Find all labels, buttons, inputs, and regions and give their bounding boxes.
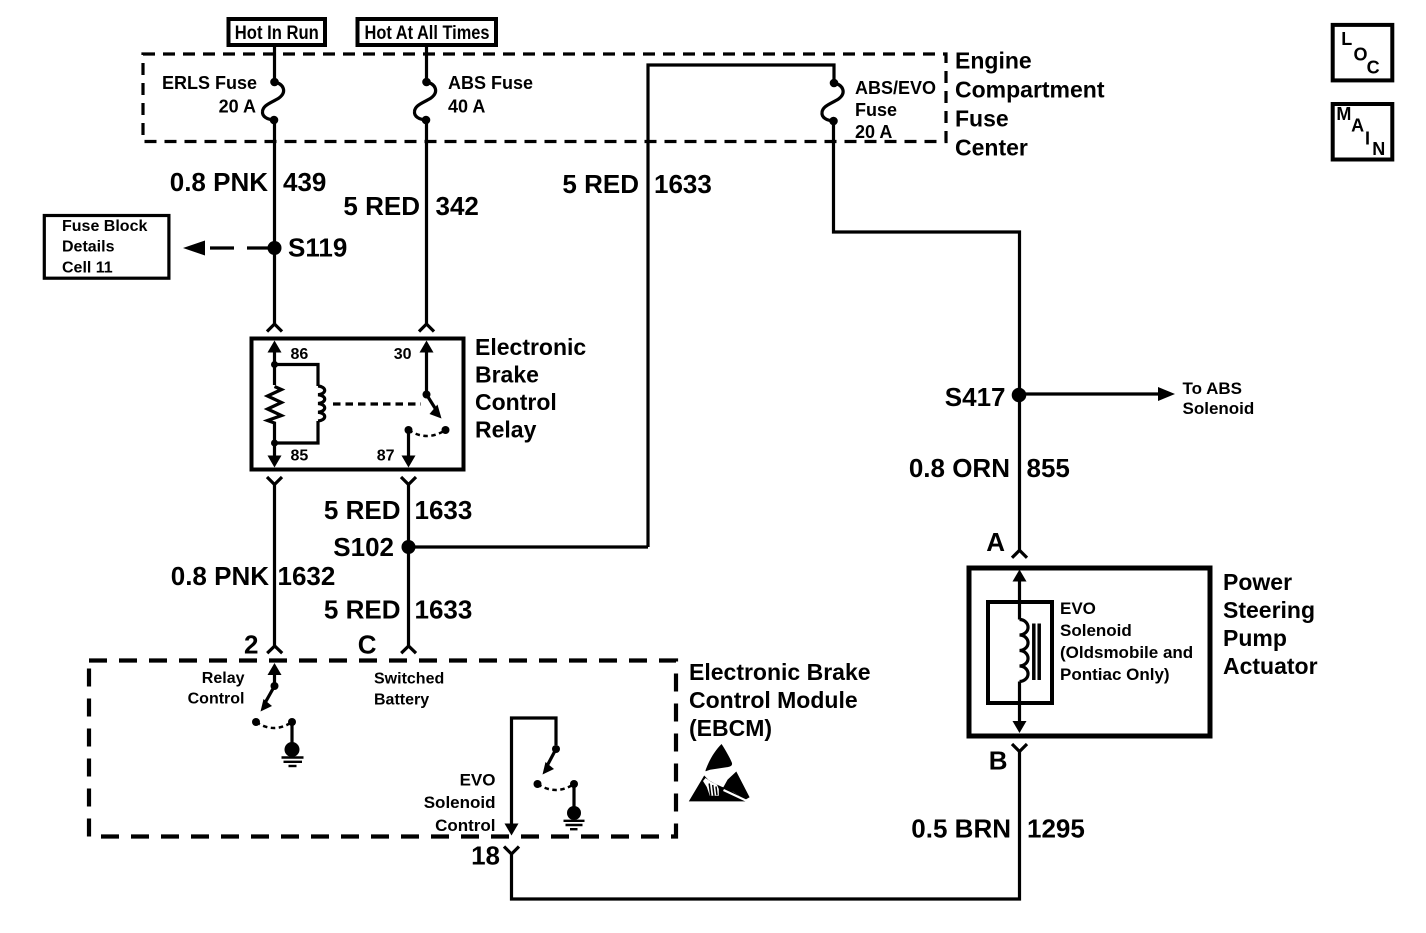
svg-text:Hot In Run: Hot In Run	[235, 23, 319, 44]
svg-text:Fuse: Fuse	[855, 100, 897, 120]
svg-text:Relay: Relay	[202, 670, 245, 687]
power box Hot In Run	[229, 19, 326, 45]
relay switch arm arrowhead	[430, 405, 442, 419]
node S102 junction dot	[402, 540, 416, 554]
svg-text:(Oldsmobile and: (Oldsmobile and	[1060, 643, 1193, 662]
svg-text:EVO: EVO	[460, 771, 496, 790]
svg-text:N: N	[1372, 139, 1385, 159]
wire 0.8 PNK 1632 relay pin 85 to EBCM pin 2	[273, 485, 276, 647]
svg-text:Cell 11: Cell 11	[62, 259, 113, 276]
wire 5 RED 1633 relay pin 87 to EBCM pin C	[407, 485, 410, 647]
relay pin 86 internal wire	[273, 352, 276, 385]
wire S102 junction to riser	[409, 545, 649, 548]
connector chevron below EBCM pin 18	[504, 847, 519, 855]
fuse ABS Fuse 40 A element	[414, 82, 435, 120]
svg-text:Compartment: Compartment	[955, 77, 1105, 103]
svg-text:1633: 1633	[654, 169, 712, 199]
power box Hot At All Times	[358, 19, 497, 45]
EBCM relay control ground stem	[290, 722, 293, 744]
wire 0.8 ORN 855 from S417 to actuator pin A	[1018, 395, 1021, 550]
svg-text:Brake: Brake	[475, 362, 539, 388]
EBCM evo solenoid ground symbol lines	[564, 820, 585, 822]
wire ABS fuse feed from Hot At All Times	[425, 45, 428, 79]
svg-text:EVO: EVO	[1060, 599, 1096, 618]
svg-text:Center: Center	[955, 135, 1028, 161]
svg-text:18: 18	[471, 841, 500, 871]
actuator pin B exit arrowhead	[1013, 721, 1027, 733]
svg-text:Hot At All Times: Hot At All Times	[365, 23, 490, 44]
svg-text:ABS/EVO: ABS/EVO	[855, 78, 936, 98]
wire ERLS fuse feed from Hot In Run	[273, 45, 276, 79]
svg-text:Pump: Pump	[1223, 625, 1287, 651]
relay coil node dots	[271, 361, 278, 368]
relay pin 86 entry arrowhead	[268, 341, 282, 353]
svg-text:M: M	[1336, 104, 1351, 124]
svg-text:Control: Control	[475, 389, 557, 415]
fuse ERLS Fuse 20 A element	[262, 82, 283, 120]
ESD sensitive device symbol	[689, 776, 746, 802]
svg-text:0.8 ORN: 0.8 ORN	[909, 453, 1010, 483]
svg-text:Actuator: Actuator	[1223, 653, 1318, 679]
svg-text:0.8 PNK: 0.8 PNK	[170, 167, 268, 197]
svg-text:20 A: 20 A	[219, 97, 256, 117]
EBCM relay control switch arm	[265, 686, 275, 703]
svg-text:0.8 PNK: 0.8 PNK	[171, 561, 269, 591]
svg-text:342: 342	[436, 191, 479, 221]
connector chevron above relay pin 86	[267, 324, 282, 332]
actuator internal wire pin A side	[1018, 580, 1021, 620]
svg-text:5 RED: 5 RED	[562, 169, 639, 199]
EVO solenoid coil windings	[1020, 620, 1029, 682]
relay switch contact dashed arc	[409, 430, 446, 436]
wire 5 RED 1633 riser at x648	[648, 65, 834, 547]
svg-text:A: A	[986, 527, 1005, 557]
EBCM dashed box Electronic Brake Control Module	[89, 661, 676, 837]
EBCM relay control contact dots	[252, 718, 260, 726]
fuse ERLS terminal dots	[270, 78, 279, 87]
svg-text:Relay: Relay	[475, 417, 537, 443]
svg-text:B: B	[989, 746, 1008, 776]
dashed arrow line to Fuse Block Details	[210, 246, 271, 249]
svg-text:Battery: Battery	[374, 692, 429, 709]
svg-text:5 RED: 5 RED	[343, 191, 420, 221]
EBCM evo solenoid ground dot	[567, 806, 581, 820]
svg-text:Steering: Steering	[1223, 597, 1315, 623]
svg-text:(EBCM): (EBCM)	[689, 715, 772, 741]
wire 0.5 BRN 1295 pin 18 to actuator pin B	[512, 752, 1020, 900]
EVO solenoid inner box	[988, 602, 1052, 703]
EBCM evo solenoid contact dots	[534, 780, 542, 788]
svg-text:Solenoid: Solenoid	[1183, 399, 1255, 418]
relay coil windings	[318, 386, 325, 421]
svg-text:855: 855	[1027, 453, 1070, 483]
EBCM pin 18 exit arrowhead	[505, 824, 519, 836]
relay resistor zigzag	[268, 387, 282, 444]
svg-text:ABS Fuse: ABS Fuse	[448, 73, 533, 93]
fuse ABS terminal dots	[422, 78, 431, 87]
svg-text:1633: 1633	[415, 595, 473, 625]
arrow line to ABS Solenoid	[1020, 392, 1161, 395]
svg-text:2: 2	[244, 630, 258, 660]
connector chevron above EBCM pin 2	[267, 646, 282, 653]
connector chevron above actuator pin A	[1012, 550, 1027, 558]
relay pin 85 exit arrowhead	[268, 456, 282, 468]
svg-text:20 A: 20 A	[855, 122, 892, 142]
svg-text:30: 30	[394, 346, 412, 363]
wire 5 RED 342 from ABS fuse to relay pin 30	[425, 122, 428, 324]
arrowhead to Fuse Block Details	[183, 241, 205, 256]
svg-text:Electronic Brake: Electronic Brake	[689, 659, 871, 685]
wire 0.8 PNK 439 from ERLS fuse to relay pin 86	[273, 122, 276, 324]
connector chevron below relay pin 85	[267, 477, 282, 485]
EBCM evo solenoid pivot dot	[552, 745, 560, 753]
EBCM relay control pivot dot	[271, 682, 279, 690]
LOC reference box	[1333, 25, 1393, 81]
svg-text:5 RED: 5 RED	[324, 595, 401, 625]
connector chevron above relay pin 30	[419, 324, 434, 332]
svg-text:Pontiac Only): Pontiac Only)	[1060, 665, 1170, 684]
relay switch arm pin30 to pin87	[427, 395, 437, 411]
relay coil branch top wire	[275, 365, 319, 387]
EVO solenoid core bars	[1032, 624, 1036, 681]
relay pin 30 internal wire	[425, 352, 428, 391]
svg-text:Control: Control	[435, 816, 495, 835]
svg-text:1295: 1295	[1027, 814, 1085, 844]
svg-text:Control Module: Control Module	[689, 687, 858, 713]
svg-text:I: I	[1365, 128, 1370, 148]
svg-text:Fuse: Fuse	[955, 106, 1009, 132]
svg-text:86: 86	[291, 346, 309, 363]
MAIN reference box	[1333, 104, 1393, 160]
relay coil to switch dashed link	[333, 402, 421, 405]
relay switch contact dots	[405, 426, 413, 434]
svg-text:ERLS Fuse: ERLS Fuse	[162, 73, 257, 93]
Fuse Block Details box	[44, 216, 169, 279]
svg-text:Solenoid: Solenoid	[424, 793, 496, 812]
relay switch pivot dot	[423, 391, 431, 399]
node S119 junction dot	[268, 241, 282, 255]
svg-text:L: L	[1341, 29, 1352, 49]
EBCM evo solenoid switch arm	[547, 749, 556, 766]
EBCM relay control ground symbol lines	[282, 756, 304, 758]
svg-text:Fuse Block: Fuse Block	[62, 218, 147, 235]
EBCM evo solenoid ground stem	[572, 784, 575, 808]
svg-text:Engine: Engine	[955, 48, 1032, 74]
relay box Electronic Brake Control Relay	[252, 339, 464, 470]
svg-text:Solenoid: Solenoid	[1060, 621, 1132, 640]
svg-text:5 RED: 5 RED	[324, 495, 401, 525]
relay coil branch bottom wire	[275, 421, 319, 443]
svg-text:0.5 BRN: 0.5 BRN	[911, 814, 1011, 844]
svg-text:Switched: Switched	[374, 671, 444, 688]
svg-text:Control: Control	[188, 691, 245, 708]
svg-text:S119: S119	[288, 233, 347, 263]
svg-text:S102: S102	[333, 532, 394, 562]
wire from ABS/EVO fuse down and right to S417 riser	[834, 123, 1020, 395]
svg-text:O: O	[1354, 44, 1368, 64]
connector chevron above EBCM pin C	[401, 646, 416, 653]
fuse ABS/EVO Fuse 20 A element	[822, 83, 843, 121]
EBCM relay control arm arrowhead	[261, 699, 273, 712]
connector chevron below actuator pin B	[1012, 744, 1027, 752]
svg-text:To ABS: To ABS	[1183, 379, 1243, 398]
Engine Compartment Fuse Center dashed box	[143, 54, 946, 142]
svg-text:40 A: 40 A	[448, 97, 485, 117]
svg-text:A: A	[1351, 115, 1364, 135]
svg-text:Electronic: Electronic	[475, 334, 586, 360]
EBCM evo solenoid contact dashed arc	[538, 784, 575, 790]
svg-text:C: C	[1367, 57, 1380, 77]
svg-text:Power: Power	[1223, 569, 1292, 595]
relay pin 30 entry arrowhead	[420, 341, 434, 353]
svg-text:S417: S417	[945, 382, 1006, 412]
EBCM evo solenoid arm arrowhead	[543, 762, 555, 775]
svg-text:Details: Details	[62, 239, 115, 256]
svg-text:439: 439	[283, 167, 326, 197]
svg-text:1633: 1633	[415, 495, 473, 525]
EBCM evo driver feed wire	[512, 718, 557, 824]
svg-text:85: 85	[291, 448, 309, 465]
node S417 junction dot	[1012, 388, 1027, 403]
relay pin 87 exit arrowhead	[402, 456, 416, 468]
actuator internal wire pin B side	[1018, 682, 1021, 723]
relay pin 87 internal wire	[407, 430, 410, 456]
EBCM relay control contact dashed arc	[256, 722, 292, 728]
EBCM pin 2 entry arrowhead	[268, 663, 282, 675]
svg-text:1632: 1632	[278, 561, 336, 591]
svg-text:87: 87	[377, 448, 395, 465]
arrowhead to ABS Solenoid	[1158, 387, 1175, 401]
EBCM relay control ground dot	[285, 742, 300, 757]
actuator pin A entry arrowhead	[1013, 570, 1027, 582]
Power Steering Pump Actuator box	[969, 568, 1210, 736]
connector chevron below relay pin 87	[401, 477, 416, 485]
EBCM relay control driver wire	[273, 674, 276, 686]
relay pin 85 internal wire	[273, 443, 276, 457]
svg-text:C: C	[358, 630, 377, 660]
fuse ABS/EVO terminal dots	[830, 79, 839, 88]
